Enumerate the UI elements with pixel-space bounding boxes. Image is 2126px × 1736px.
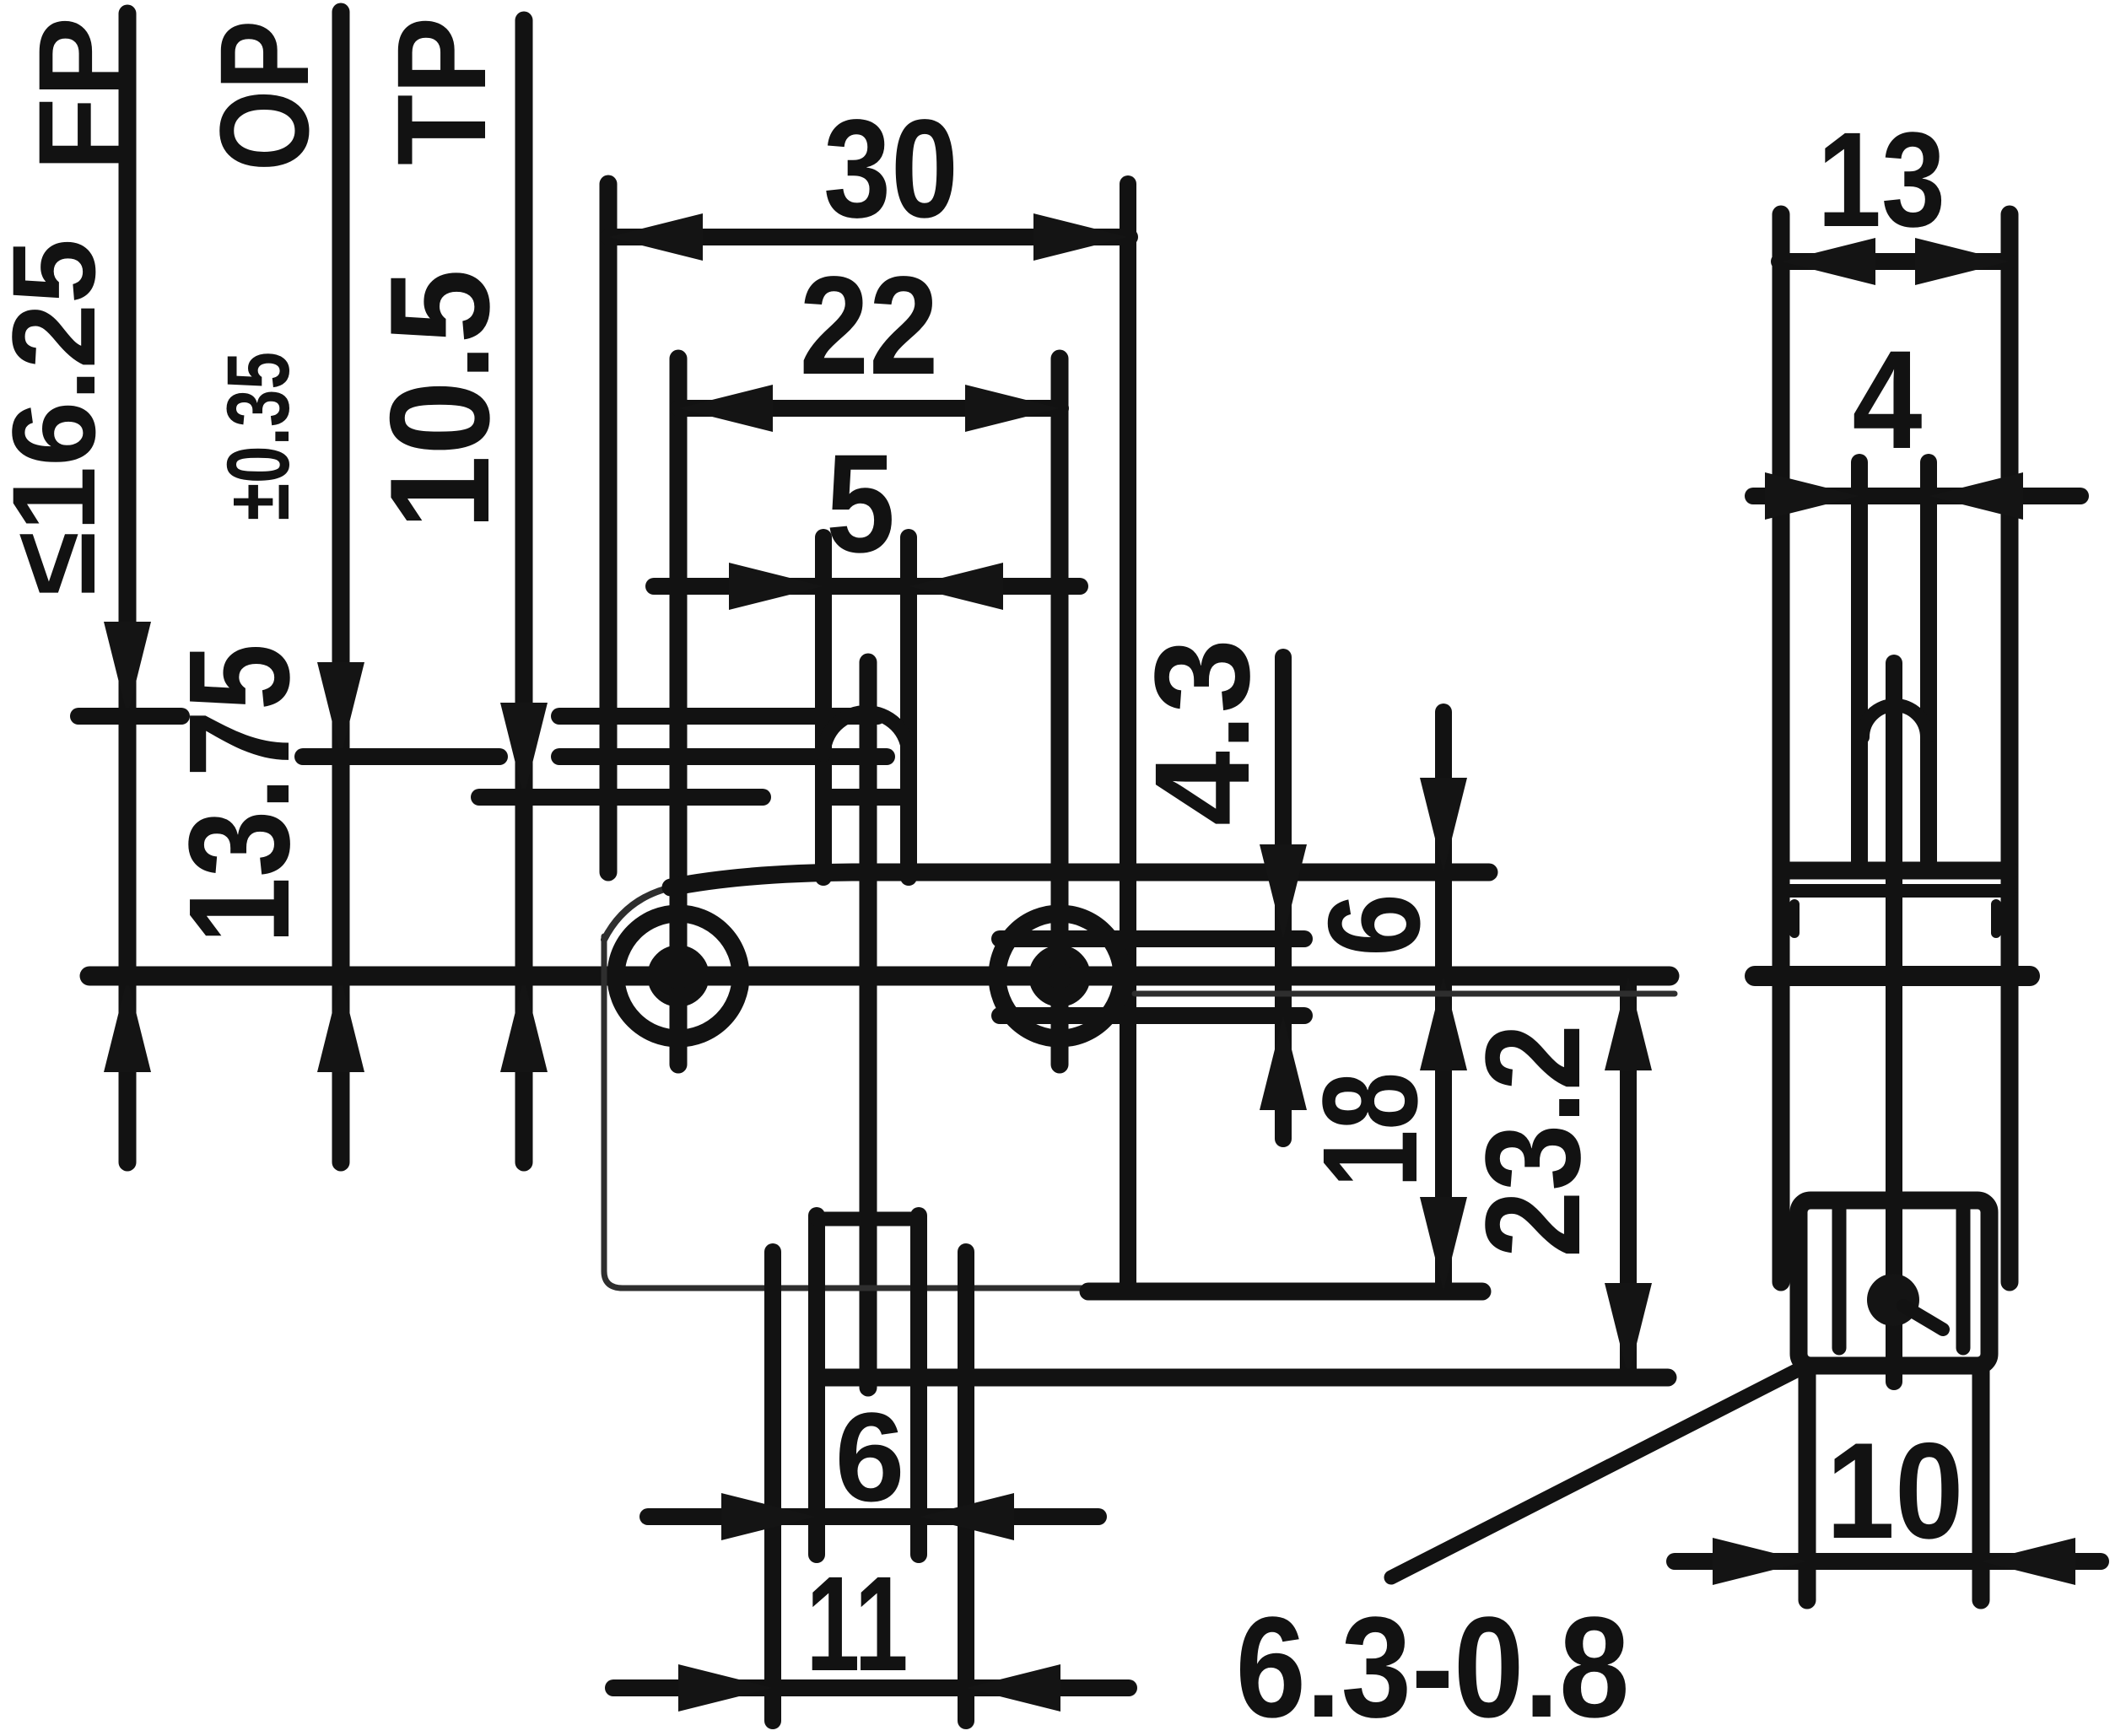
- body top-left corner curve: [604, 887, 675, 940]
- svg-text:4.3: 4.3: [1126, 639, 1277, 826]
- TP reference tick y=945: [479, 789, 909, 806]
- screw slot slash: [1903, 1306, 1943, 1329]
- side view body top line: [1781, 862, 2010, 880]
- OP reference tick y=897: [303, 748, 887, 765]
- hole tangent tick top y=1113: [1000, 930, 1304, 947]
- dimension line 11 bottom: [613, 1664, 1129, 1712]
- mounting hole target right: [997, 914, 1122, 1038]
- svg-text:10: 10: [1827, 1415, 1964, 1567]
- side terminal box inner left: [1832, 1209, 1847, 1348]
- side view plunger right x=2286: [1920, 462, 1937, 871]
- side view centerline: [1886, 663, 1902, 1382]
- terminal inner line right x=1089: [910, 1216, 927, 1555]
- svg-text:30: 30: [823, 91, 958, 247]
- side view plunger left x=2204: [1851, 462, 1868, 871]
- dimension line TP (x=621): [500, 20, 548, 1162]
- svg-text:6: 6: [1301, 893, 1447, 957]
- svg-text:13: 13: [1817, 104, 1945, 255]
- side view mounting flange y=1157: [1755, 966, 2030, 986]
- side view nub right: [1991, 904, 2001, 933]
- svg-text:22: 22: [800, 248, 939, 404]
- body top edge + tick to right: [671, 872, 1489, 887]
- svg-text:4: 4: [1853, 322, 1923, 478]
- side view nub left: [1789, 904, 1800, 933]
- body left edge and bottom edge (thin): [604, 936, 1093, 1288]
- side view outer left edge x=2111: [1773, 214, 1790, 1282]
- dimension line 13: [1779, 238, 2010, 285]
- plunger right edge / ext 5: [900, 537, 917, 877]
- extension line 22 left / hole cross: [670, 359, 688, 1065]
- terminal outer line right x=1145: [958, 1252, 974, 1721]
- svg-text:6.3-0.8: 6.3-0.8: [1236, 1588, 1630, 1736]
- FP reference tick y=849: [78, 708, 877, 725]
- svg-text:23.2: 23.2: [1457, 1024, 1608, 1258]
- dimension line 10: [1675, 1538, 2101, 1585]
- svg-text:11: 11: [807, 1548, 909, 1699]
- terminal outer line left x=916: [764, 1252, 781, 1721]
- dimension line 30: [608, 213, 1130, 261]
- svg-text:10.5: 10.5: [360, 269, 519, 530]
- dimension line 4.3 (x=1521): [1260, 657, 1307, 1139]
- svg-text:≤16.25: ≤16.25: [0, 239, 120, 596]
- hole tangent tick bottom y=1204: [1000, 1007, 1304, 1024]
- side terminal box inner right: [1956, 1209, 1971, 1348]
- dimension line 23.2 (x=1930): [1605, 976, 1652, 1377]
- dimension line 6 bottom: [648, 1493, 1098, 1540]
- terminal screw head: [1867, 1274, 1919, 1326]
- terminal inner line left x=968: [808, 1216, 825, 1555]
- svg-text:6: 6: [835, 1386, 905, 1528]
- dimension line 6/18 (x=1711): [1420, 712, 1467, 1291]
- leader line 6.3-0.8: [1391, 1369, 1800, 1577]
- svg-text:OP: OP: [193, 20, 335, 171]
- plunger centerline: [860, 662, 877, 1388]
- dimension line 4: [1753, 472, 2080, 520]
- side view dome arc: [1863, 705, 1927, 737]
- svg-text:18: 18: [1294, 1072, 1445, 1188]
- dimension line 22: [678, 385, 1060, 432]
- lug line left x=2142: [1799, 1366, 1816, 1600]
- plunger dome arc: [823, 713, 909, 756]
- extension line 30 right / body right edge: [1120, 184, 1136, 1291]
- extension line 30 left / body left top: [600, 184, 618, 872]
- dimension line OP (x=404): [317, 12, 364, 1162]
- side view outer right edge x=2382: [2001, 214, 2019, 1282]
- svg-text:FP: FP: [13, 17, 146, 171]
- extension line 22 right / hole cross: [1051, 359, 1069, 1065]
- svg-text:5: 5: [826, 426, 895, 582]
- side view body second line: [1781, 884, 2010, 898]
- plunger left edge / ext 5: [815, 537, 832, 877]
- body bottom tick 18 ref y=1531: [1088, 1283, 1482, 1301]
- mounting hole target left: [616, 914, 741, 1038]
- thin ledge line right of body: [1135, 991, 1675, 997]
- tick 23.2 bottom y=1633: [818, 1369, 1668, 1387]
- dimension line 5: [654, 563, 1080, 610]
- svg-text:TP: TP: [370, 17, 512, 165]
- side terminal box: [1799, 1200, 1989, 1366]
- terminal top bar: [817, 1212, 919, 1227]
- mounting hole centerline y=1157: [89, 967, 1670, 986]
- dimension line FP (x=151): [104, 13, 151, 1162]
- lug line right x=2348: [1972, 1366, 1990, 1600]
